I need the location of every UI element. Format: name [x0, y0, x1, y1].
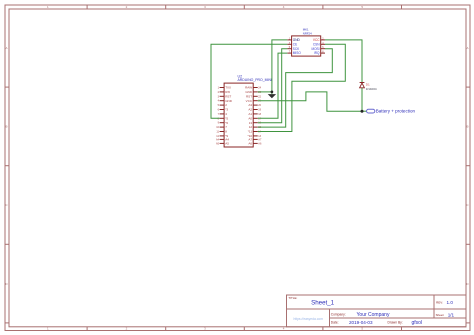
svg-text:*3: *3 [225, 108, 228, 112]
svg-text:GND: GND [293, 38, 301, 42]
svg-text:13: 13 [249, 121, 253, 125]
wire NRF24 CSN to U2 pin *11 [258, 44, 346, 131]
IC U2 ARDUINO_PRO_MINI [216, 74, 272, 147]
diode D1 1N4004 [360, 82, 377, 91]
svg-text:Sheet_1: Sheet_1 [311, 299, 335, 306]
svg-text:B: B [5, 125, 7, 129]
U2 pin 16 13 [249, 121, 262, 125]
svg-text:B: B [466, 125, 468, 129]
wire battery junction to port [362, 109, 367, 113]
wire NRF24 SCK to U2 pin 13 [258, 49, 288, 123]
svg-text:TITLE:: TITLE: [288, 296, 297, 300]
svg-text:8: 8 [225, 130, 227, 134]
U2 pin 24 RAW [245, 86, 262, 90]
ground [268, 94, 276, 98]
svg-text:D1: D1 [366, 82, 370, 86]
wire diode D1 anode to battery junction [360, 88, 364, 111]
wire NRF24 MISO to U2 pin A0 [258, 53, 288, 118]
U2 pin 1 TX0 [218, 86, 231, 90]
svg-text:https://easyeda.com: https://easyeda.com [293, 317, 323, 321]
svg-text:2: 2 [225, 103, 227, 107]
svg-text:IRQ: IRQ [314, 51, 320, 55]
svg-text:MK1: MK1 [303, 27, 309, 31]
title block [287, 295, 467, 327]
MK1 pin 3 CE [287, 42, 297, 46]
svg-text:*6: *6 [225, 121, 228, 125]
U2 pin 15 12 [249, 125, 262, 129]
svg-text:1N4004: 1N4004 [366, 87, 377, 91]
U2 pin 20 A3 [248, 103, 261, 107]
wire NRF24 GND to ground junction [272, 40, 287, 92]
MK1 pin 8 IRQ [314, 51, 325, 55]
U2 pin A7 A7 [248, 138, 262, 142]
svg-text:SCK: SCK [293, 47, 300, 51]
U2 pin A5 A5 [216, 142, 229, 146]
svg-text:GND: GND [245, 90, 253, 94]
U2 pin 11 8 [216, 130, 227, 134]
U2 pin 2 RXI [218, 90, 231, 94]
svg-text:A: A [466, 46, 468, 50]
U2 pin A6 A6 [248, 142, 262, 146]
U2 pin 14 *11 [248, 130, 262, 134]
module MK1 NRF24 [287, 27, 325, 56]
svg-text:1.0: 1.0 [447, 300, 454, 305]
svg-text:RAW: RAW [245, 86, 252, 90]
MK1 pin 4 CSN [313, 42, 325, 46]
svg-text:VCC: VCC [246, 99, 253, 103]
svg-text:NRF24: NRF24 [303, 31, 312, 35]
svg-text:gfsol: gfsol [412, 320, 423, 326]
svg-text:A6: A6 [248, 142, 252, 146]
wire NRF24 CE to U2 pin *5 [211, 44, 287, 118]
U2 pin 12 *9 [216, 134, 228, 138]
svg-text:A1: A1 [248, 112, 252, 116]
svg-text:REV:: REV: [436, 300, 443, 304]
MK1 pin 2 VCC [313, 38, 325, 42]
svg-text:Drawn By:: Drawn By: [388, 321, 403, 325]
svg-text:MISO: MISO [293, 51, 302, 55]
svg-text:A7: A7 [248, 138, 252, 142]
U2 pin 21 VCC [246, 99, 262, 103]
wire NRF24 VCC to diode D1 cathode [325, 40, 362, 82]
MK1 pin 1 GND [287, 38, 300, 42]
U2 pin 22 RST [246, 94, 262, 98]
svg-text:RST: RST [225, 94, 231, 98]
U2 pin A4 A4 [216, 138, 229, 142]
wire U2 GND to ground junction [258, 90, 272, 94]
U2 pin 23 GND [245, 90, 261, 94]
svg-text:A0: A0 [248, 116, 252, 120]
svg-text:4: 4 [225, 112, 227, 116]
U2 pin 9 *6 [218, 121, 229, 125]
svg-text:TX0: TX0 [225, 86, 231, 90]
U2 pin 5 2 [218, 103, 228, 107]
U2 pin 3 RST [218, 94, 232, 98]
svg-text:*11: *11 [248, 130, 253, 134]
net port Battery + protection [367, 109, 416, 114]
svg-text:CE: CE [293, 42, 297, 46]
svg-text:A3: A3 [248, 103, 252, 107]
svg-text:ARDUINO_PRO_MINI: ARDUINO_PRO_MINI [238, 78, 272, 82]
svg-text:CSN: CSN [313, 42, 320, 46]
svg-text:MOSI: MOSI [311, 47, 319, 51]
U2 pin 17 A0 [248, 116, 261, 120]
svg-text:A4: A4 [225, 138, 229, 142]
junction ground node [271, 91, 274, 94]
wire U2 VCC to battery junction [258, 92, 362, 111]
svg-text:Battery + protection: Battery + protection [376, 109, 416, 114]
svg-text:Sheet:: Sheet: [436, 313, 445, 317]
svg-text:A5: A5 [225, 142, 229, 146]
svg-text:*5: *5 [225, 116, 228, 120]
svg-text:Date:: Date: [331, 321, 339, 325]
svg-text:7: 7 [225, 125, 227, 129]
U2 pin 8 *5 [218, 116, 229, 120]
U2 pin 6 *3 [218, 108, 229, 112]
svg-text:Your Company: Your Company [357, 312, 390, 318]
wire ground junction to ground symbol [270, 92, 274, 94]
svg-text:1/1: 1/1 [448, 312, 455, 317]
MK1 pin 5 SCK [287, 47, 300, 51]
svg-text:GND: GND [225, 99, 233, 103]
U2 pin 10 7 [216, 125, 227, 129]
svg-text:A: A [5, 46, 7, 50]
U2 pin 4 GND [218, 99, 233, 103]
junction battery node [361, 110, 364, 113]
svg-text:A2: A2 [248, 108, 252, 112]
U2 pin 19 A2 [248, 108, 261, 112]
U2 pin 13 *10 [248, 134, 262, 138]
svg-text:RXI: RXI [225, 90, 230, 94]
MK1 pin 6 MOSI [311, 47, 325, 51]
svg-text:RST: RST [246, 94, 252, 98]
wire NRF24 MOSI to U2 pin 12 [258, 49, 333, 127]
svg-text:Company:: Company: [331, 312, 346, 316]
MK1 pin 7 MISO [287, 51, 301, 55]
svg-text:12: 12 [249, 125, 253, 129]
U2 pin 7 4 [218, 112, 228, 116]
svg-text:VCC: VCC [313, 38, 320, 42]
U2 pin 18 A1 [248, 112, 261, 116]
svg-text:2019-04-03: 2019-04-03 [349, 320, 373, 325]
